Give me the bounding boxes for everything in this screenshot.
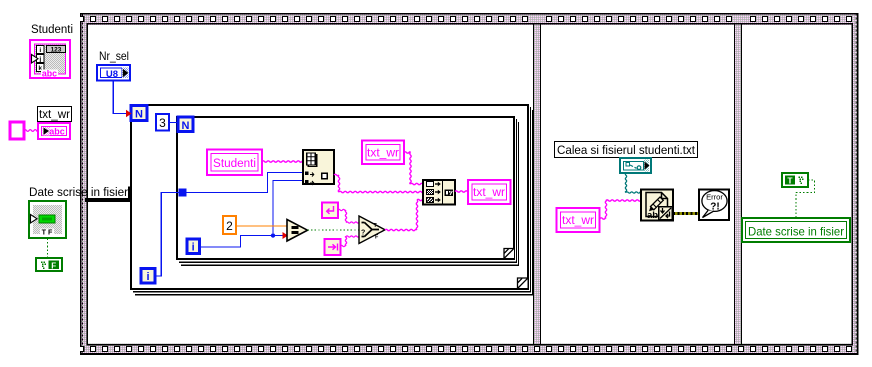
svg-text:?: ? <box>361 230 365 237</box>
svg-text:txt_wr: txt_wr <box>473 185 505 199</box>
outer for loop count terminal N <box>131 106 147 121</box>
index array node <box>303 150 334 185</box>
svg-text:i: i <box>39 47 41 54</box>
wire index array to concatenate 2 <box>334 174 423 192</box>
empty string constant <box>10 122 24 139</box>
wire inner i to equals <box>200 236 284 248</box>
wire equals to select <box>308 229 360 231</box>
svg-text:Studenti: Studenti <box>31 22 73 36</box>
local variable Studenti <box>207 150 262 176</box>
simple error handler node <box>699 190 729 221</box>
string control terminal txt_wr <box>38 123 70 139</box>
boolean indicator terminal Date scrise in fisier <box>29 201 66 238</box>
end of line constant <box>322 203 338 219</box>
label Studenti <box>31 22 73 36</box>
equals node <box>287 220 308 242</box>
inner for loop iteration terminal i <box>187 239 200 254</box>
wire txt_wr to write node <box>600 200 641 219</box>
wire tunnel to index array input 1 <box>187 173 304 193</box>
svg-text:Date scrise in fisier: Date scrise in fisier <box>29 185 128 199</box>
wire concatenate to txt_wr <box>455 191 468 192</box>
svg-text:N: N <box>182 120 190 132</box>
wire Studenti to index array <box>262 161 303 162</box>
cluster control terminal Studenti <box>30 40 70 79</box>
wire txt_wr to concatenate 1 <box>404 152 423 185</box>
inner for loop count terminal N <box>178 117 193 132</box>
svg-text:T F: T F <box>42 228 53 237</box>
path constant <box>620 158 651 173</box>
inner for loop <box>176 116 519 266</box>
wire path to write node <box>625 173 641 193</box>
wire true constant to indicator <box>796 180 815 218</box>
svg-text:F: F <box>51 261 56 270</box>
label Nr_sel <box>99 49 129 63</box>
svg-text:?!: ?! <box>710 202 719 213</box>
wire 2 to equals <box>236 225 287 227</box>
constant 3 <box>156 114 169 131</box>
wire string constant to txt_wr control <box>24 130 38 132</box>
label Calea si fisierul studenti.txt <box>555 142 698 158</box>
wire Nr_sel to N <box>113 81 127 114</box>
svg-text:N: N <box>135 109 143 121</box>
svg-text:Error: Error <box>706 193 723 202</box>
svg-text:123: 123 <box>51 46 62 53</box>
wire 3 to inner N <box>169 122 178 124</box>
svg-text:Calea si fisierul studenti.txt: Calea si fisierul studenti.txt <box>557 143 696 157</box>
wire EOL to select t <box>338 209 359 223</box>
svg-text:U8: U8 <box>106 69 118 80</box>
svg-text:j: j <box>38 56 41 63</box>
svg-text:i: i <box>192 242 195 254</box>
svg-text:txt_wr: txt_wr <box>367 146 399 160</box>
label txt_wr (control) <box>38 107 72 122</box>
error wire <box>673 212 699 215</box>
wire junction to index array input 2 <box>273 181 303 234</box>
outer for loop iteration terminal i <box>141 269 155 284</box>
wire tab to select f <box>341 236 360 247</box>
boolean local variable F <box>36 258 62 271</box>
wire select to concatenate <box>385 199 423 230</box>
wire outer i to tunnel <box>155 193 179 277</box>
tunnel on inner loop <box>179 189 187 197</box>
label shadow L <box>85 187 132 203</box>
true constant <box>782 173 808 187</box>
svg-text:i: i <box>146 271 149 283</box>
select node <box>359 216 385 244</box>
local variable txt_wr write <box>362 141 404 165</box>
svg-text:txt_wr: txt_wr <box>562 213 594 227</box>
wire indicator to F local <box>47 239 49 259</box>
coercion dot at equals <box>283 232 289 239</box>
label Date scrise in fisier <box>29 185 128 199</box>
local variable Date scrise in fisier <box>742 218 850 242</box>
film strip squares bottom <box>80 346 852 352</box>
sequence frame separator 2 <box>734 25 742 345</box>
numeric control terminal Nr_sel U8 <box>97 65 130 81</box>
svg-text:abc: abc <box>42 69 57 79</box>
concatenate strings node <box>423 180 455 205</box>
svg-text:txt_wr: txt_wr <box>39 107 70 121</box>
local variable txt_wr output <box>468 180 511 204</box>
constant 2 <box>223 216 236 234</box>
svg-text:ab: ab <box>647 210 658 221</box>
outer for loop <box>130 104 533 296</box>
svg-text:abc: abc <box>49 126 65 136</box>
junction dot <box>271 233 275 237</box>
write to text file node <box>641 190 673 221</box>
film strip squares top <box>80 16 852 22</box>
svg-text:Studenti: Studenti <box>213 156 256 170</box>
svg-text:3: 3 <box>159 116 166 130</box>
svg-text:Nr_sel: Nr_sel <box>99 49 129 63</box>
svg-text:T: T <box>787 176 793 186</box>
coercion dot at N <box>126 110 132 118</box>
local variable txt_wr read <box>557 208 600 232</box>
tab constant <box>325 239 341 255</box>
svg-text:Date scrise in fisier: Date scrise in fisier <box>748 224 844 238</box>
svg-text:2: 2 <box>226 219 233 233</box>
sequence frame separator 1 <box>533 25 541 345</box>
